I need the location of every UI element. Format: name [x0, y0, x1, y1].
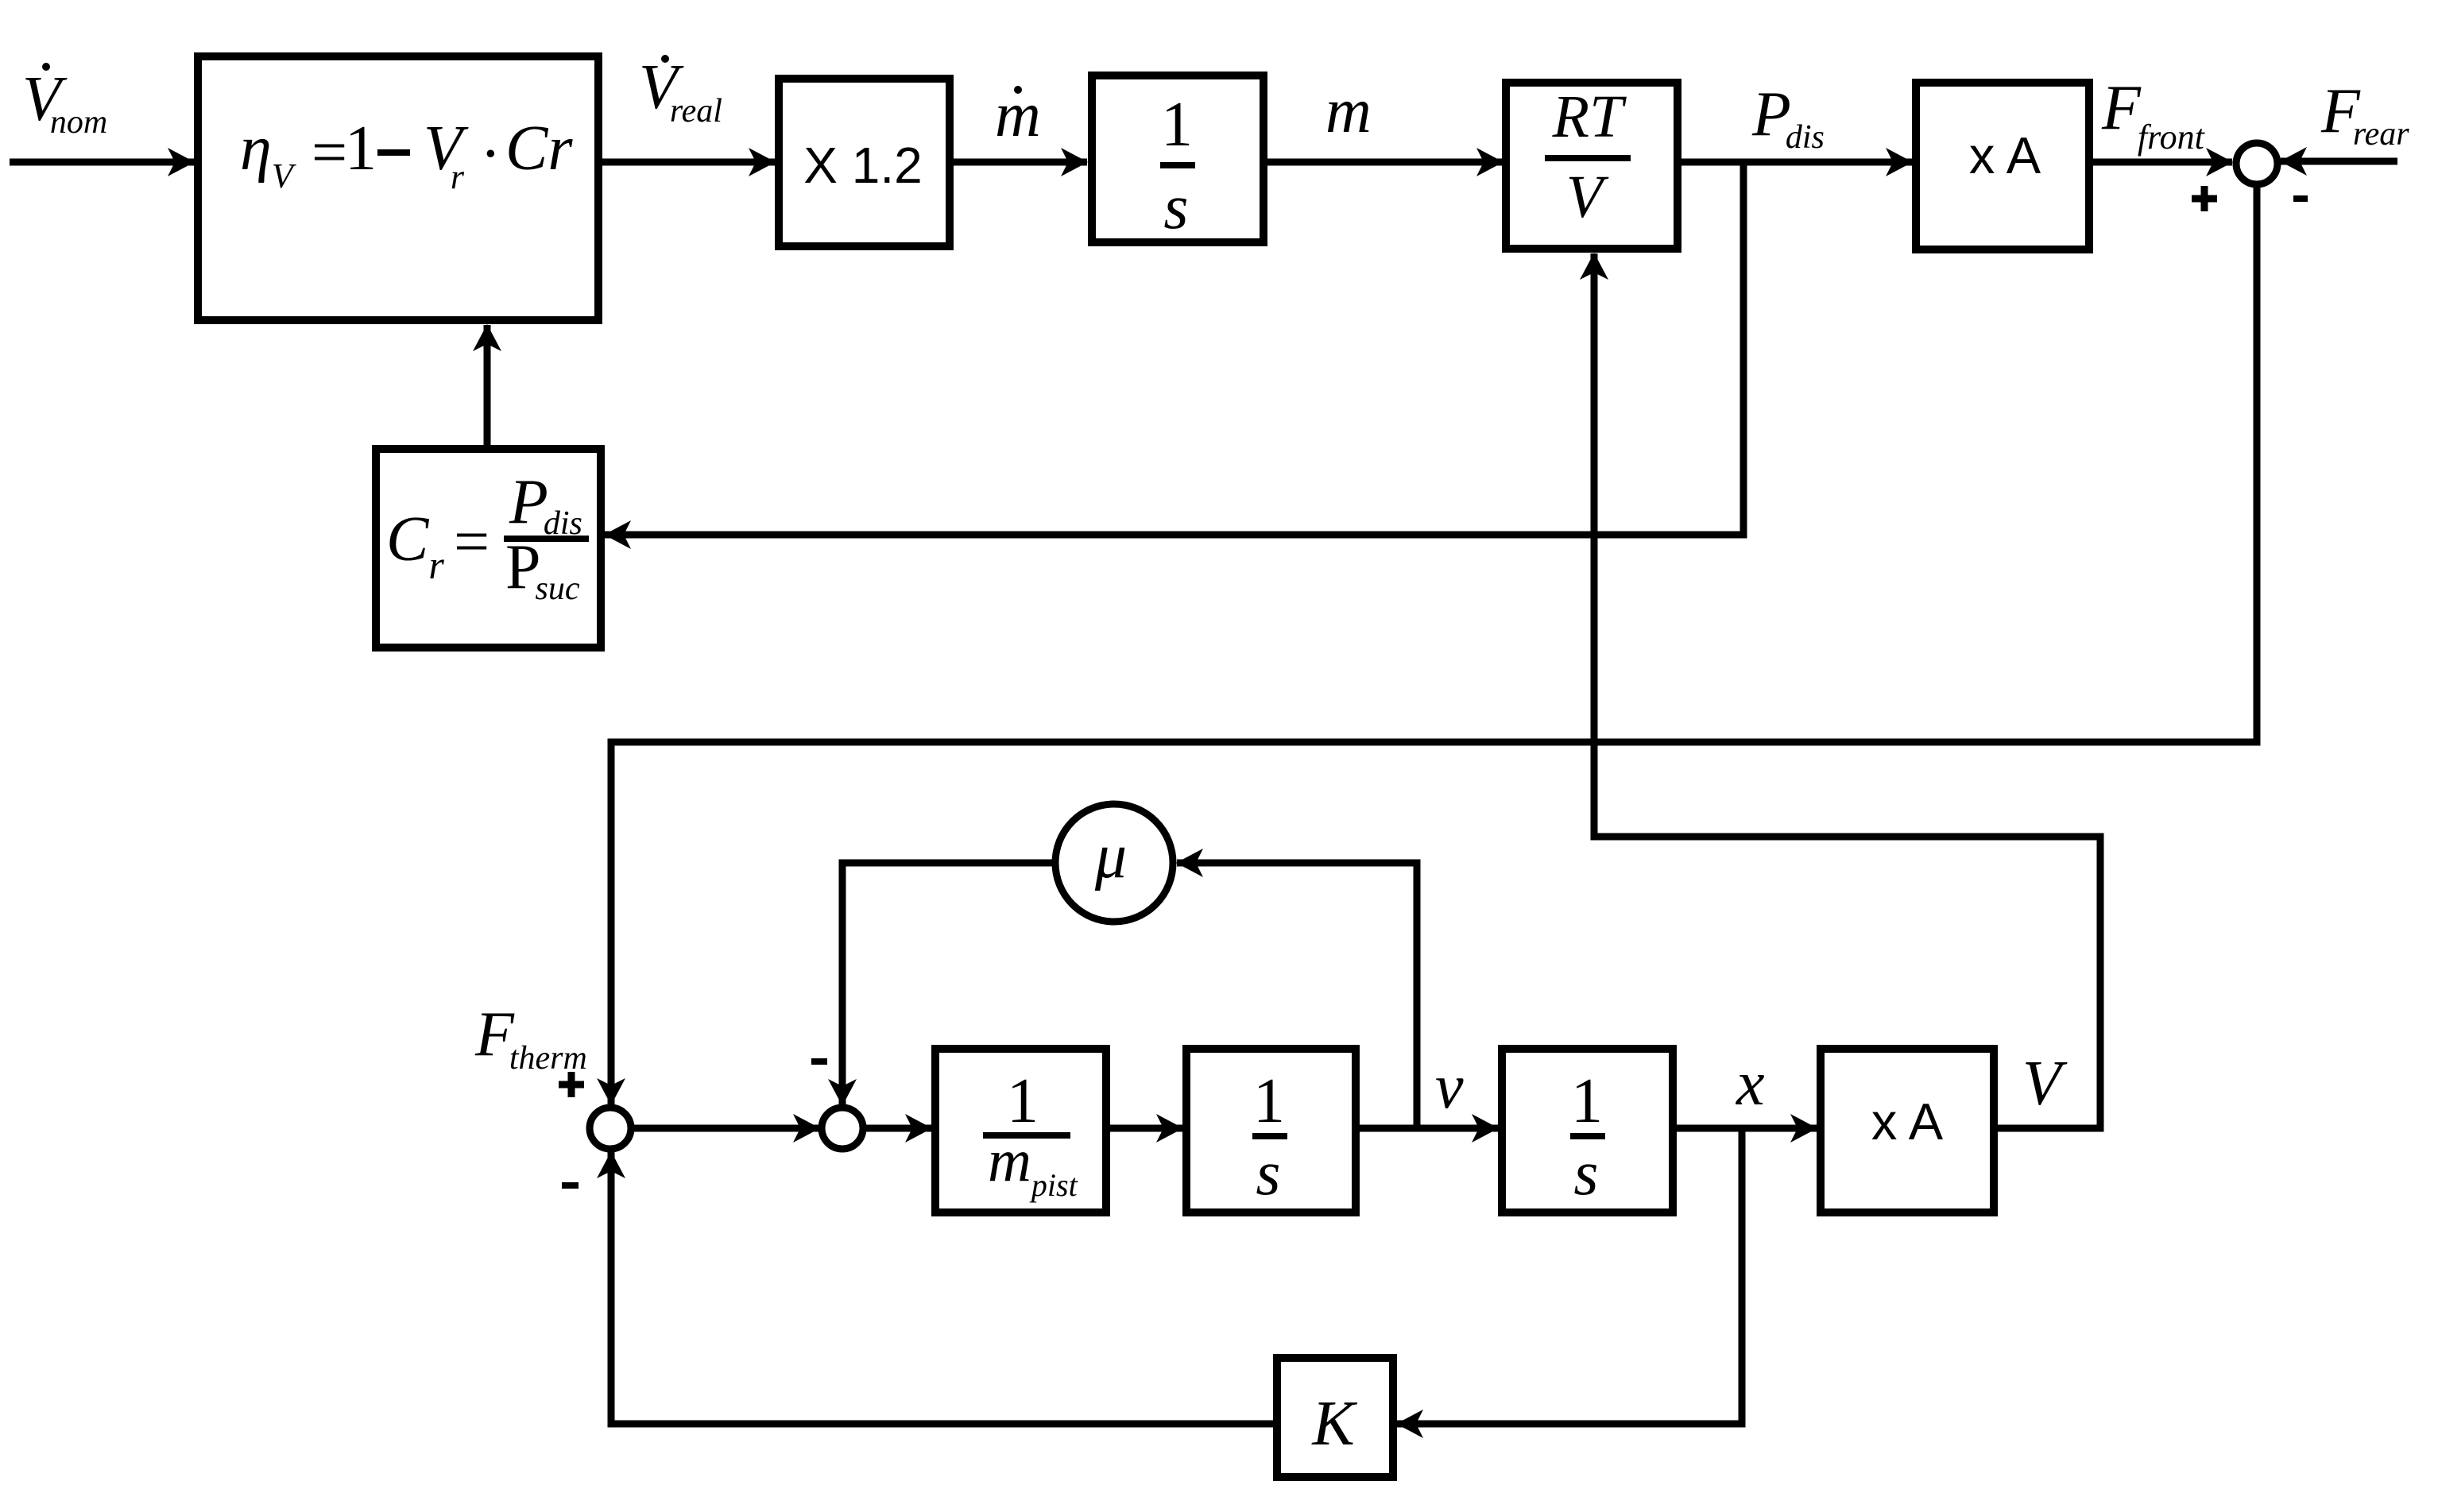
svg-text:RT: RT: [1552, 83, 1627, 150]
label plus S1: [2192, 186, 2217, 211]
wire x tap to K: [1397, 1128, 1742, 1424]
wire m: [1267, 159, 1503, 166]
wire S1 output to lower summing junction S2: [611, 184, 2257, 1104]
svg-text:v: v: [1435, 1052, 1464, 1122]
wire Ffront: [2093, 159, 2232, 166]
block xA top: [1916, 83, 2089, 249]
label Vreal: [639, 52, 722, 130]
svg-text:X 1.2: X 1.2: [803, 137, 922, 194]
svg-text:K: K: [1311, 1389, 1357, 1459]
block K: [1277, 1358, 1393, 1477]
svg-text:1: 1: [1161, 90, 1193, 160]
svg-text:·: ·: [480, 119, 501, 189]
wire Frear input: [2281, 158, 2397, 165]
svg-text:s: s: [1256, 1139, 1280, 1208]
block RT/V: [1506, 83, 1678, 249]
svg-text:1: 1: [345, 114, 377, 184]
label minus S1: [2293, 195, 2308, 202]
wire V feedback to RT/V: [1594, 253, 2100, 1128]
svg-text:=: =: [454, 507, 490, 577]
svg-text:1: 1: [1571, 1066, 1603, 1136]
label minus S2: [562, 1182, 579, 1189]
label Vnom input: [22, 63, 107, 141]
wire 1/mpist to integrator2: [1106, 1125, 1182, 1132]
svg-text:V: V: [1566, 164, 1609, 230]
svg-text:1: 1: [1253, 1066, 1285, 1136]
block integrator 1/s top: [1092, 75, 1264, 242]
wire v: [1360, 1125, 1498, 1132]
svg-text:x A: x A: [1969, 126, 2041, 184]
label minus S3: [811, 1058, 827, 1065]
block etaV equation: [198, 56, 598, 320]
block integrator 1/s second: [1186, 1049, 1356, 1212]
svg-text:s: s: [1573, 1139, 1598, 1208]
summing junction S1 top: [2236, 143, 2277, 184]
block integrator 1/s third: [1502, 1049, 1673, 1212]
wire S2 to S3: [634, 1125, 819, 1132]
svg-text:1: 1: [1007, 1066, 1039, 1136]
block X1.2: [779, 79, 950, 246]
wire Vnom input arrow: [10, 159, 194, 166]
wire Pdis feedback to Cr: [605, 165, 1743, 535]
wire Pdis: [1681, 159, 1912, 166]
svg-text:Cr: Cr: [505, 114, 573, 184]
wire mdot: [954, 159, 1087, 166]
summing junction S2: [590, 1108, 631, 1149]
block Cr equation: [376, 449, 601, 648]
wire mu to S3: [842, 863, 1055, 1105]
wire Cr to etaV: [484, 325, 491, 445]
svg-text:x: x: [1736, 1049, 1765, 1119]
block xA lower: [1821, 1049, 1994, 1212]
svg-text:x A: x A: [1871, 1092, 1944, 1150]
gain mu circle: [1055, 804, 1173, 922]
svg-text:V: V: [2022, 1049, 2068, 1119]
wire v tap to mu: [1177, 863, 1417, 1128]
block 1/mpist: [935, 1049, 1106, 1212]
svg-text:m: m: [1325, 76, 1372, 146]
svg-text:μ: μ: [1094, 822, 1127, 891]
summing junction S3: [822, 1108, 863, 1149]
svg-text:s: s: [1163, 172, 1188, 242]
svg-text:=: =: [312, 118, 347, 188]
wire S3 to 1/mpist: [865, 1125, 931, 1132]
label mdot: [995, 80, 1041, 150]
wire K to S2: [611, 1152, 1273, 1424]
wire x: [1677, 1125, 1817, 1132]
wire Vreal: [602, 159, 775, 166]
label plus S2: [559, 1072, 584, 1097]
